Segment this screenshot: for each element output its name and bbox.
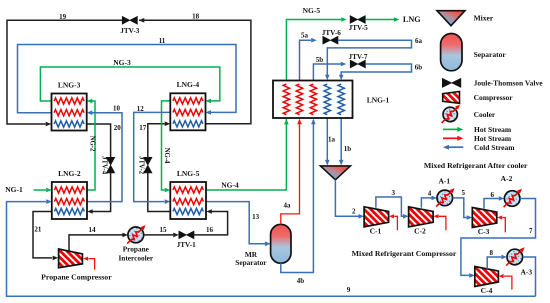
svg-text:3: 3	[391, 189, 395, 197]
svg-text:JTV-4: JTV-4	[100, 156, 107, 175]
svg-text:LNG-5: LNG-5	[177, 169, 200, 178]
wire 4b: separator bottom to LNG-1 (cold liquid)	[281, 119, 316, 285]
svg-text:Cooler: Cooler	[474, 110, 496, 119]
wire 6b: JTV-7 back into LNG-1	[339, 63, 422, 80]
svg-text:NG-4: NG-4	[163, 148, 170, 164]
svg-text:11: 11	[159, 37, 166, 45]
svg-text:1a: 1a	[328, 135, 336, 143]
legend mixer symbol	[437, 11, 494, 26]
svg-text:9: 9	[347, 286, 351, 294]
wire 1a: LNG-1 to mixer	[325, 118, 336, 166]
wire 19: JTV-3 to LNG-3 bottom coil	[7, 13, 122, 127]
compressor C-1	[364, 207, 389, 236]
valve JTV-2	[138, 156, 153, 175]
red work stream into C-1	[389, 214, 397, 230]
svg-text:JTV-5: JTV-5	[349, 24, 368, 32]
svg-text:Mixed Refrigerant Compressor: Mixed Refrigerant Compressor	[352, 249, 457, 258]
compressor C-3	[472, 208, 497, 236]
heat exchanger LNG-1 (main cryogenic exchanger)	[273, 81, 390, 119]
wire 4a: separator top to LNG-1 (hot)	[281, 119, 302, 225]
svg-text:6b: 6b	[415, 63, 423, 71]
cooler: Propane Intercooler	[118, 224, 153, 263]
wire JTV-2 up to LNG-4 bottom coil	[148, 122, 171, 158]
wire 11: LNG-3 middle coil over top to LNG-4 middle coil	[18, 37, 237, 115]
wire LNG product out	[365, 15, 421, 24]
svg-text:5a: 5a	[301, 32, 309, 40]
svg-text:5: 5	[461, 189, 465, 197]
red work stream into C-4	[499, 274, 512, 290]
svg-text:A-2: A-2	[501, 174, 513, 183]
wire 6a: JTV-6 back into LNG-1	[325, 37, 423, 80]
svg-text:17: 17	[139, 124, 147, 132]
cooler A-2	[501, 174, 524, 207]
wire 13: LNG-5 middle coil to MR Separator	[206, 202, 271, 247]
svg-text:12: 12	[137, 105, 145, 113]
valve JTV-3	[120, 16, 139, 35]
svg-text:Hot Stream: Hot Stream	[474, 134, 512, 143]
wire 18: LNG-4 bottom coil to JTV-3	[139, 12, 251, 124]
heat exchanger LNG-2	[52, 169, 87, 219]
wire NG-5: LNG-1 top to JTV-5	[286, 6, 346, 80]
svg-text:JTV-1: JTV-1	[177, 241, 196, 249]
svg-text:Hot Stream: Hot Stream	[474, 125, 512, 134]
svg-text:Mixer: Mixer	[474, 14, 494, 23]
wire 5: A-1 to C-3	[453, 189, 473, 220]
svg-text:4b: 4b	[297, 277, 305, 285]
valve JTV-7	[348, 53, 367, 68]
wire NG-1 into LNG-2	[5, 185, 52, 194]
svg-text:5b: 5b	[316, 56, 324, 64]
svg-text:Mixed Refrigerant After cooler: Mixed Refrigerant After cooler	[424, 161, 528, 170]
heat exchanger LNG-3	[52, 80, 87, 130]
svg-text:JTV-7: JTV-7	[348, 53, 367, 61]
svg-text:7: 7	[529, 227, 533, 235]
svg-text:Compressor: Compressor	[474, 93, 514, 102]
wire NG-4: LNG-5 top coil to NG-5 riser	[206, 119, 289, 190]
svg-text:Joule-Thomson Valve: Joule-Thomson Valve	[474, 78, 544, 87]
valve JTV-6	[322, 29, 341, 44]
red work stream into propane compressor	[83, 257, 95, 270]
legend cold stream (blue)	[443, 143, 515, 152]
svg-text:19: 19	[59, 13, 67, 21]
valve JTV-4	[100, 156, 115, 175]
wire 15: intercooler to JTV-1	[144, 226, 179, 237]
wire 7: A-2 down and around to C-4	[461, 199, 536, 278]
wire 4: C-2 to cooler A-1	[421, 190, 437, 208]
svg-text:NG-1: NG-1	[5, 185, 23, 194]
compressor C-4	[475, 267, 499, 295]
svg-text:Separator: Separator	[235, 258, 267, 267]
svg-text:LNG-1: LNG-1	[367, 96, 390, 105]
svg-text:Cold Stream: Cold Stream	[474, 143, 515, 152]
svg-text:20: 20	[114, 124, 122, 132]
legend compressor symbol	[443, 92, 514, 104]
wire 5a: LNG-1 to JTV-6	[300, 32, 317, 81]
svg-text:1b: 1b	[344, 145, 352, 153]
svg-text:LNG-4: LNG-4	[177, 80, 200, 89]
svg-text:4: 4	[428, 190, 432, 198]
svg-text:16: 16	[206, 226, 214, 234]
svg-text:NG-3: NG-3	[113, 58, 131, 67]
compressor C-2	[409, 207, 434, 236]
svg-text:NG-2: NG-2	[89, 136, 96, 152]
legend hot stream (red)	[443, 134, 512, 143]
heat exchanger LNG-5	[170, 169, 206, 219]
svg-text:2: 2	[352, 207, 356, 215]
wire 17: LNG-5 bottom coil to JTV-2	[139, 124, 170, 212]
svg-text:Intercooler: Intercooler	[118, 253, 153, 262]
svg-text:JTV-6: JTV-6	[322, 29, 341, 37]
wire 21: LNG-2 bottom coil to propane compressor	[33, 212, 58, 261]
wire JTV-4 to LNG-2 bottom coil	[87, 173, 111, 214]
svg-text:JTV-3: JTV-3	[120, 27, 139, 35]
red work stream into C-2	[434, 214, 446, 230]
svg-text:NG-4: NG-4	[221, 180, 239, 189]
wire 6: C-3 to cooler A-2	[484, 191, 504, 208]
svg-text:13: 13	[252, 213, 260, 221]
wire 5b: LNG-1 to JTV-7	[313, 56, 346, 81]
wire 8: C-4 to cooler A-3	[487, 249, 507, 269]
wire 9: A-3 outlet along bottom and up into LNG-2 middle coil	[7, 199, 536, 296]
legend separator symbol	[441, 34, 507, 71]
svg-text:LNG: LNG	[403, 15, 421, 24]
svg-text:21: 21	[34, 225, 42, 233]
legend Joule-Thomson valve symbol	[442, 78, 543, 87]
wire NG-2: LNG-2 top coil up to LNG-3 top coil	[87, 99, 96, 190]
wire 12: LNG-4 middle coil down to LNG-5 middle coil	[134, 105, 171, 204]
svg-text:LNG-2: LNG-2	[58, 169, 81, 178]
svg-text:14: 14	[89, 226, 97, 234]
wire 14: compressor to propane intercooler	[69, 226, 128, 253]
wire NG-3: LNG-3 top coil over to LNG-4 top coil	[40, 58, 219, 103]
svg-text:C-4: C-4	[481, 286, 493, 295]
svg-text:Propane: Propane	[123, 244, 150, 253]
svg-text:10: 10	[113, 105, 121, 113]
wire 20: LNG-3 bottom coil down to JTV-4	[87, 124, 122, 157]
wire A-3 outlet to bottom line	[523, 257, 536, 296]
mixer	[320, 166, 350, 180]
red work stream into C-3	[497, 215, 505, 232]
svg-text:JTV-2: JTV-2	[138, 156, 145, 175]
svg-text:18: 18	[192, 12, 200, 20]
svg-text:LNG-3: LNG-3	[58, 80, 81, 89]
cooler A-3	[506, 246, 532, 277]
heat exchanger LNG-4	[170, 80, 205, 130]
svg-text:C-1: C-1	[370, 226, 382, 235]
wire 16: JTV-1 to LNG-5 bottom coil	[194, 209, 228, 235]
svg-text:Propane Compressor: Propane Compressor	[41, 272, 112, 281]
heading Mixed Refrigerant Compressor	[352, 249, 457, 258]
heading Mixed Refrigerant After cooler	[424, 161, 528, 170]
wire 1b: LNG-1 to mixer	[339, 118, 351, 166]
separator: MR Separator	[235, 224, 291, 267]
legend hot stream (green)	[443, 125, 512, 134]
valve JTV-5	[349, 16, 368, 32]
svg-text:A-3: A-3	[520, 268, 532, 277]
svg-text:C-2: C-2	[414, 226, 426, 235]
compressor: Propane Compressor	[41, 249, 112, 281]
legend cooler symbol	[442, 103, 496, 123]
svg-text:Separator: Separator	[474, 50, 507, 59]
svg-text:6: 6	[490, 191, 494, 199]
valve JTV-1	[177, 231, 196, 249]
svg-text:A-1: A-1	[438, 177, 450, 186]
svg-text:6a: 6a	[415, 37, 423, 45]
wire 3: C-1 to C-2	[376, 189, 409, 218]
wire NG-4 vertical: LNG-4 top coil down to LNG-5 top coil	[162, 101, 171, 192]
wire 2: mixer to C-1	[335, 180, 364, 219]
svg-text:15: 15	[160, 226, 168, 234]
svg-text:8: 8	[489, 249, 493, 257]
svg-text:NG-5: NG-5	[303, 6, 321, 15]
cooler A-1	[436, 177, 456, 207]
wire 10: LNG-2 middle coil up to LNG-3 middle coil	[87, 105, 122, 202]
svg-text:4a: 4a	[284, 201, 292, 209]
svg-text:C-3: C-3	[478, 227, 490, 236]
